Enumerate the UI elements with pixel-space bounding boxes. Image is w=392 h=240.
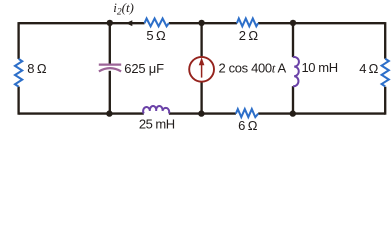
svg-text:25 mH: 25 mH (139, 117, 175, 132)
inductor 10-mH (vertical branch) (293, 57, 299, 86)
wire: bottom, 25-mH to 6-ohm (169, 112, 236, 114)
wire: right edge above 4-ohm (384, 22, 386, 59)
resistor 6-ohm (bottom wire) (236, 109, 258, 117)
wire: left edge above 8-ohm (17, 22, 19, 59)
svg-text:2 Ω: 2 Ω (239, 28, 259, 43)
wire: source branch upper (200, 23, 202, 56)
svg-text:10 mH: 10 mH (302, 60, 338, 75)
svg-text:625 μF: 625 μF (124, 61, 164, 76)
capacitor 625uF curved plate (99, 68, 121, 71)
node dot: source branch bottom (198, 110, 204, 116)
wire: top, 5-ohm to 2-ohm (169, 22, 237, 24)
wire: inductor branch upper (292, 23, 294, 57)
node dot: cap branch top (107, 20, 113, 26)
node dot: source branch top (198, 20, 204, 26)
wire: inductor branch lower (292, 86, 294, 113)
capacitor 625uF top plate (99, 63, 121, 65)
svg-text:i2(t): i2(t) (113, 0, 134, 18)
wire: top, 2-ohm to top-right corner (258, 22, 385, 24)
current source arrow (201, 65, 203, 78)
resistor 4-ohm (right edge) (382, 59, 389, 87)
resistor 2-ohm (top wire) (237, 19, 258, 27)
current direction arrowhead i2 (126, 20, 133, 26)
svg-text:6 Ω: 6 Ω (238, 118, 258, 133)
wire: top, left corner to 5-ohm (19, 22, 145, 24)
resistor 5-ohm (top wire) (145, 19, 169, 27)
node dot: cap branch bottom (106, 110, 112, 116)
inductor 25-mH (bottom wire) (143, 106, 169, 114)
wire: right edge below 4-ohm (384, 87, 386, 115)
resistor R 8-ohm (left edge) (15, 59, 22, 87)
svg-text:8 Ω: 8 Ω (27, 61, 47, 76)
svg-text:5 Ω: 5 Ω (146, 28, 166, 43)
wire: bottom, 6-ohm to bottom-right corner (258, 112, 385, 114)
node dot: inductor branch bottom (290, 110, 296, 116)
wire: capacitor branch lower (109, 71, 111, 114)
wire: left edge below 8-ohm (17, 87, 19, 115)
node dot: inductor branch top (290, 20, 296, 26)
wire: capacitor branch upper (109, 23, 111, 64)
wire: bottom, left corner to 25-mH (19, 112, 144, 114)
svg-text:2 cos 400t A: 2 cos 400t A (219, 60, 287, 75)
wire: source branch lower (200, 82, 202, 113)
current source circle (189, 57, 214, 82)
svg-text:4 Ω: 4 Ω (359, 61, 378, 76)
